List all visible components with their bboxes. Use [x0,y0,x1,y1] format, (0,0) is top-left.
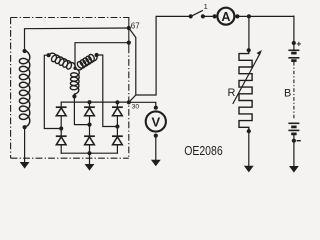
resistor bottom dot [247,129,251,133]
ground rectifier [85,164,95,171]
variable arrow through R [233,54,260,104]
ground resistor [244,166,254,173]
svg-text:A: A [221,10,230,24]
ground battery [289,166,299,173]
wire external node to riser [136,16,156,95]
switch S1 left contact [189,14,193,18]
rotor field winding lead (top) [25,28,129,52]
rectifier ground stem [89,153,91,164]
diode D4 (bottom, phase 1) [56,136,67,145]
svg-text:1: 1 [204,2,208,11]
stator left phase coil [49,53,76,69]
stator middle phase coil [70,69,79,94]
switch blade [191,11,203,17]
svg-text:OE2086: OE2086 [184,144,223,158]
wire battery drop [293,16,295,43]
wire switch to ammeter [203,15,215,17]
battery dash-dot middle [293,62,295,120]
battery B top cells [288,50,299,60]
ammeter right terminal dot [235,14,239,18]
voltmeter bottom dot [154,134,158,138]
ground rotor [20,162,30,169]
middle phase wire [74,94,89,125]
voltmeter V [146,111,166,131]
stator middle phase end dot [72,94,76,98]
wire down to resistor [248,16,250,50]
battery stub joins [293,43,295,50]
svg-text:R: R [228,87,236,99]
resistor R (meander) [239,50,252,131]
battery B bottom cells [288,123,299,134]
wire ammeter to battery corner [237,15,294,17]
svg-text:+: + [296,38,301,48]
terminal 30 dot [127,100,131,104]
rotor field coil [19,51,29,128]
rotor coil bottom terminal dot [23,125,27,129]
ammeter A1 [217,8,234,25]
resistor ground stem [248,131,250,166]
alternator unit boundary (dash-dot box) [11,18,130,159]
rectifier top bus to terminal 30 [61,101,129,103]
voltmeter ground stem [155,136,157,160]
voltmeter branch dot [154,106,158,110]
ammeter left terminal dot [213,14,217,18]
svg-text:V: V [151,114,160,129]
right phase wire [97,55,118,127]
node: phase 3 AC input [115,124,119,128]
junction dot to load resistor [247,14,251,18]
battery - terminal dot [292,139,296,143]
wire terminal 67 to external node [129,28,136,102]
node: phase 2 AC input [87,123,91,127]
node: phase 1 AC input [59,126,63,130]
battery + terminal dot [292,41,296,45]
rotor coil top terminal dot [23,49,27,53]
node: bus junction phase 3 top [115,100,119,104]
stator right phase end dot [95,53,99,57]
svg-text:30: 30 [132,103,140,110]
stator star point junction [73,67,76,70]
resistor top dot [247,48,251,52]
boundary right solid segment [128,17,130,47]
rotor field winding lead (bottom) [24,127,26,162]
top wire from riser to switch [156,15,191,17]
node: bus junction phase 2 top [87,100,91,104]
diode D5 (bottom, phase 2) [84,136,95,145]
terminal 67 dot [127,26,131,30]
diode D6 (bottom, phase 3) [112,136,123,145]
svg-text:B: B [284,87,291,99]
ground voltmeter [151,160,161,167]
rectifier bottom bus [61,152,117,154]
wire terminal 30 to voltmeter branch [129,102,156,107]
svg-text:67: 67 [131,21,140,30]
diode D3 (top, phase 3) [112,107,123,116]
node: bottom bus ground tap [87,151,91,155]
star point lead to boundary terminal [75,43,129,68]
diode D2 (top, phase 2) [84,107,95,116]
stator left phase end dot [47,53,51,57]
left phase wire [44,55,61,128]
stator right phase coil [76,54,97,69]
label minus [297,140,301,142]
battery ground stem [293,134,295,166]
switch S1 right contact [201,14,205,18]
terminal dot on boundary (star point) [127,41,131,45]
diode D1 (top, phase 1) [56,107,67,116]
diode column leads [60,102,62,153]
